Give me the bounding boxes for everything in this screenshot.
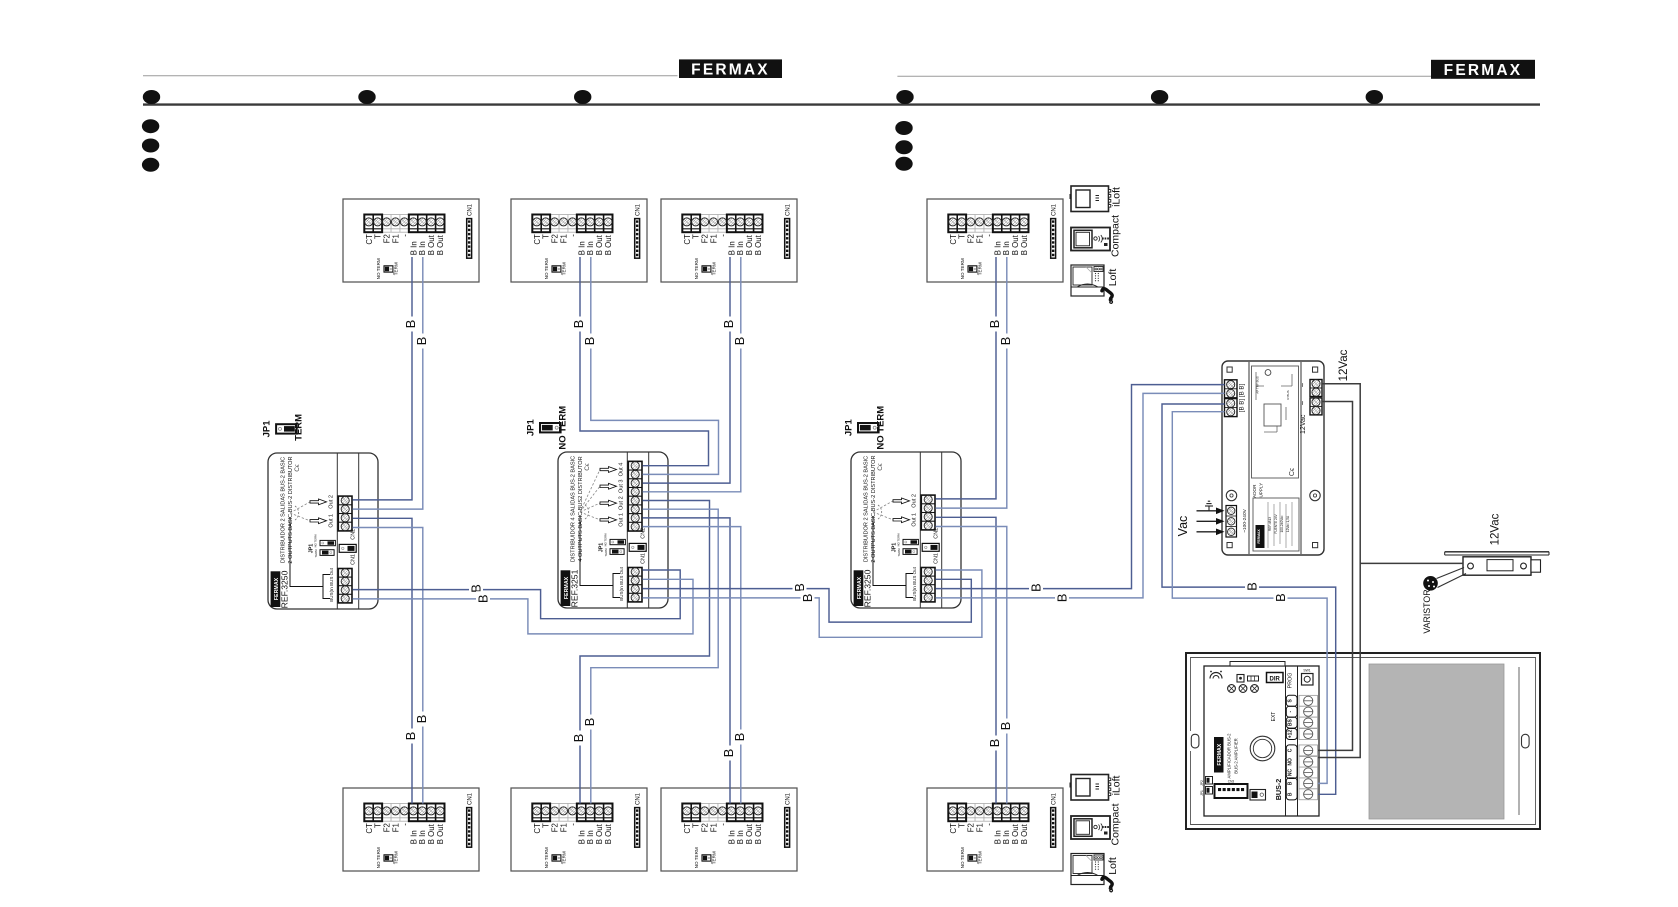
svg-text:B: B xyxy=(1288,781,1294,785)
svg-text:CT: CT xyxy=(683,823,692,834)
svg-text:B Out: B Out xyxy=(595,234,604,255)
svg-text:JP1: JP1 xyxy=(1200,790,1204,796)
svg-text:NO TERM: NO TERM xyxy=(544,258,549,279)
svg-text:BUS(In: BUS(In xyxy=(912,586,917,601)
svg-text:DISTRIBUIDOR 4 SALIDAS BUS-2 B: DISTRIBUIDOR 4 SALIDAS BUS-2 BASIC xyxy=(571,456,577,562)
svg-text:CT: CT xyxy=(949,234,958,245)
svg-text:Out 1: Out 1 xyxy=(328,514,334,528)
svg-text:12Vac: 12Vac xyxy=(1300,414,1307,434)
svg-text:CT: CT xyxy=(949,823,958,834)
svg-text:NO TERM: NO TERM xyxy=(875,406,886,450)
svg-text:CN1: CN1 xyxy=(641,553,647,564)
svg-text:Out 2: Out 2 xyxy=(328,495,334,509)
svg-text:TERM: TERM xyxy=(978,262,983,275)
svg-text:CT: CT xyxy=(683,234,692,245)
svg-text:Vac: Vac xyxy=(1176,516,1190,537)
svg-text:F1: F1 xyxy=(391,234,400,243)
svg-text:B: B xyxy=(403,320,418,329)
svg-text:T: T xyxy=(958,234,967,239)
svg-text:B In: B In xyxy=(993,241,1002,255)
svg-text:R BUS: R BUS xyxy=(1286,390,1290,399)
svg-text:NO TERM: NO TERM xyxy=(960,258,965,279)
svg-text:BUS(In: BUS(In xyxy=(329,587,334,602)
svg-text:B: B xyxy=(987,320,1002,329)
svg-text:BUS-2: BUS-2 xyxy=(1274,779,1283,801)
svg-text:B Out: B Out xyxy=(1011,234,1020,255)
svg-text:B Out: B Out xyxy=(427,823,436,844)
svg-text:Cϵ: Cϵ xyxy=(294,464,301,472)
svg-text:TERM: TERM xyxy=(562,262,567,275)
svg-text:[B B] [B B]: [B B] [B B] xyxy=(1239,383,1246,412)
svg-text:NO TERM: NO TERM xyxy=(544,847,549,868)
svg-text:B In: B In xyxy=(1002,830,1011,844)
svg-text:TERM: TERM xyxy=(394,851,399,864)
svg-text:~: ~ xyxy=(1299,400,1308,405)
svg-text:iLoft: iLoft xyxy=(1111,776,1123,796)
svg-text:NO TERM: NO TERM xyxy=(376,258,381,279)
svg-text:CN1: CN1 xyxy=(635,203,641,216)
svg-text:B: B xyxy=(1288,792,1294,796)
svg-text:T: T xyxy=(958,823,967,828)
svg-text:-: - xyxy=(718,823,727,826)
svg-text:CN1: CN1 xyxy=(1051,203,1057,216)
svg-text:12Vac: 12Vac xyxy=(1490,513,1502,545)
svg-text:B In: B In xyxy=(1002,241,1011,255)
svg-text:Loft: Loft xyxy=(1107,857,1119,875)
svg-text:CN1: CN1 xyxy=(785,203,791,216)
svg-text:TERM: TERM xyxy=(978,851,983,864)
svg-text:JP1: JP1 xyxy=(844,419,855,437)
svg-text:B: B xyxy=(987,739,1002,748)
svg-text:F1: F1 xyxy=(391,823,400,832)
svg-text:B Out: B Out xyxy=(745,823,754,844)
svg-text:CN1: CN1 xyxy=(1051,792,1057,805)
svg-text:B Out: B Out xyxy=(595,823,604,844)
svg-text:B In: B In xyxy=(418,241,427,255)
svg-text:TERM: TERM xyxy=(394,262,399,275)
svg-text:Compact: Compact xyxy=(1110,215,1122,257)
svg-text:B Out: B Out xyxy=(754,234,763,255)
svg-text:TERM: TERM xyxy=(314,549,318,558)
svg-text:F1: F1 xyxy=(709,823,718,832)
svg-text:CN3: CN3 xyxy=(1228,780,1235,784)
svg-text:B Out: B Out xyxy=(436,823,445,844)
svg-text:B: B xyxy=(414,337,429,346)
svg-text:B: B xyxy=(1245,582,1260,591)
svg-text:-: - xyxy=(400,234,409,237)
svg-text:TERM: TERM xyxy=(294,414,305,441)
svg-text:Loft: Loft xyxy=(1107,269,1119,287)
svg-text:F2: F2 xyxy=(701,823,710,832)
svg-text:B In: B In xyxy=(409,830,418,844)
svg-text:NC: NC xyxy=(1288,769,1294,777)
svg-text:T: T xyxy=(374,823,383,828)
svg-text:B Out: B Out xyxy=(427,234,436,255)
svg-text:F1: F1 xyxy=(709,234,718,243)
svg-text:TERM: TERM xyxy=(712,262,717,275)
svg-text:VARISTOR: VARISTOR xyxy=(1422,589,1432,633)
svg-text:Out 1: Out 1 xyxy=(618,513,624,527)
svg-text:Compact: Compact xyxy=(1110,803,1122,845)
svg-text:BUS Out: BUS Out xyxy=(912,566,917,585)
svg-text:B: B xyxy=(800,594,815,603)
svg-text:-: - xyxy=(568,823,577,826)
svg-text:B: B xyxy=(721,320,736,329)
svg-text:DISTRIBUIDOR 2 SALIDAS BUS-2 B: DISTRIBUIDOR 2 SALIDAS BUS-2 BASIC xyxy=(864,456,870,562)
svg-text:B Out: B Out xyxy=(754,823,763,844)
svg-text:FUENTE 24V: FUENTE 24V xyxy=(1274,513,1278,533)
svg-text:F2: F2 xyxy=(551,823,560,832)
svg-text:F1: F1 xyxy=(559,823,568,832)
svg-text:Out 4: Out 4 xyxy=(618,463,624,477)
svg-text:F1: F1 xyxy=(975,823,984,832)
svg-text:B: B xyxy=(721,749,736,758)
svg-text:B In: B In xyxy=(736,830,745,844)
svg-text:JP1: JP1 xyxy=(262,420,273,438)
svg-text:B Out: B Out xyxy=(604,823,613,844)
svg-text:B: B xyxy=(1029,583,1044,592)
svg-text:-: - xyxy=(984,823,993,826)
svg-text:B: B xyxy=(571,734,586,743)
svg-text:B: B xyxy=(998,337,1013,346)
svg-text:AP TRF BUS: AP TRF BUS xyxy=(1256,376,1260,394)
svg-text:B In: B In xyxy=(727,830,736,844)
svg-text:DIR: DIR xyxy=(1270,676,1281,682)
svg-text:CN1: CN1 xyxy=(635,792,641,805)
svg-text:B: B xyxy=(732,337,747,346)
svg-text:FERMAX: FERMAX xyxy=(691,61,770,78)
svg-text:CN1: CN1 xyxy=(467,203,473,216)
svg-text:NO TERM: NO TERM xyxy=(376,847,381,868)
svg-text:F2: F2 xyxy=(383,234,392,243)
svg-text:PROG: PROG xyxy=(1288,673,1294,689)
svg-text:B: B xyxy=(414,715,429,724)
svg-text:AMPLIFICADOR BUS-2: AMPLIFICADOR BUS-2 xyxy=(1227,733,1232,779)
svg-text:EXT: EXT xyxy=(1271,712,1277,722)
svg-text:CN1: CN1 xyxy=(351,554,357,565)
svg-text:T: T xyxy=(542,234,551,239)
svg-text:FERMAX: FERMAX xyxy=(1444,62,1523,79)
svg-text:B Out: B Out xyxy=(604,234,613,255)
svg-text:CN1: CN1 xyxy=(467,792,473,805)
svg-text:4 OUTPUTS BASIC BUS2 DISTRIBUT: 4 OUTPUTS BASIC BUS2 DISTRIBUTOR xyxy=(578,456,584,561)
svg-text:F2: F2 xyxy=(551,234,560,243)
svg-text:F2: F2 xyxy=(967,234,976,243)
svg-text:B Out: B Out xyxy=(1011,823,1020,844)
svg-text:B: B xyxy=(582,718,597,727)
svg-text:B In: B In xyxy=(993,830,1002,844)
svg-text:B: B xyxy=(1273,593,1288,602)
svg-text:B: B xyxy=(998,722,1013,731)
svg-text:B: B xyxy=(571,320,586,329)
svg-text:12Vac: 12Vac xyxy=(1338,349,1350,381)
svg-text:F1: F1 xyxy=(559,234,568,243)
svg-text:BUS-2 AMPLIFIER: BUS-2 AMPLIFIER xyxy=(1234,738,1239,773)
svg-text:TERM: TERM xyxy=(712,851,717,864)
svg-text:T: T xyxy=(692,823,701,828)
svg-text:CN2: CN2 xyxy=(641,528,647,539)
svg-text:Out 2: Out 2 xyxy=(618,496,624,510)
svg-text:-: - xyxy=(568,234,577,237)
svg-text:Out 2: Out 2 xyxy=(911,494,917,508)
svg-text:+12: +12 xyxy=(1288,730,1294,739)
svg-text:TERM: TERM xyxy=(604,548,608,557)
svg-text:B In: B In xyxy=(586,830,595,844)
svg-text:F2: F2 xyxy=(967,823,976,832)
svg-text:NO TERM: NO TERM xyxy=(960,847,965,868)
svg-text:BUS(In: BUS(In xyxy=(619,586,624,601)
svg-text:CT: CT xyxy=(533,234,542,245)
svg-text:FERMAX: FERMAX xyxy=(1257,529,1261,544)
svg-text:-: - xyxy=(400,823,409,826)
svg-text:NO TERM: NO TERM xyxy=(694,258,699,279)
svg-text:SW1: SW1 xyxy=(1303,669,1310,673)
svg-text:BS: BS xyxy=(1288,718,1294,726)
svg-text:B In: B In xyxy=(409,241,418,255)
svg-text:iLoft: iLoft xyxy=(1111,187,1123,207)
svg-text:Cϵ: Cϵ xyxy=(877,463,884,471)
svg-text:REF.3250: REF.3250 xyxy=(863,569,873,607)
svg-text:-: - xyxy=(984,234,993,237)
svg-text:F2: F2 xyxy=(701,234,710,243)
svg-text:Out 1: Out 1 xyxy=(911,513,917,527)
svg-text:B: B xyxy=(476,594,491,603)
svg-text:CN2: CN2 xyxy=(934,528,940,539)
svg-text:~100-240V: ~100-240V xyxy=(1242,508,1248,532)
svg-text:Cϵ: Cϵ xyxy=(1289,468,1296,476)
svg-text:B: B xyxy=(1055,594,1070,603)
svg-text:B: B xyxy=(732,733,747,742)
svg-text:T: T xyxy=(374,234,383,239)
svg-text:B In: B In xyxy=(577,830,586,844)
svg-text:JP1: JP1 xyxy=(526,419,537,437)
svg-text:BUS Out: BUS Out xyxy=(619,566,624,585)
svg-text:B In: B In xyxy=(727,241,736,255)
svg-text:100-240Vac: 100-240Vac xyxy=(1280,515,1284,532)
svg-text:B In: B In xyxy=(736,241,745,255)
svg-text:Out 3: Out 3 xyxy=(618,479,624,493)
svg-text:B: B xyxy=(582,337,597,346)
svg-text:CT: CT xyxy=(533,823,542,834)
svg-text:12Vac 1,5A: 12Vac 1,5A xyxy=(1286,515,1290,532)
svg-text:CT: CT xyxy=(365,234,374,245)
svg-text:Cϵ: Cϵ xyxy=(584,463,591,471)
svg-text:REF.3251: REF.3251 xyxy=(570,569,580,607)
svg-text:~: ~ xyxy=(1299,382,1308,387)
svg-text:T: T xyxy=(542,823,551,828)
svg-text:B Out: B Out xyxy=(1020,823,1029,844)
svg-text:FERMAX: FERMAX xyxy=(1217,743,1223,765)
svg-text:F2: F2 xyxy=(383,823,392,832)
svg-text:F1: F1 xyxy=(975,234,984,243)
svg-text:B In: B In xyxy=(418,830,427,844)
svg-text:B Out: B Out xyxy=(436,234,445,255)
svg-text:-: - xyxy=(718,234,727,237)
svg-text:NO TERM: NO TERM xyxy=(557,406,568,450)
svg-text:B In: B In xyxy=(586,241,595,255)
svg-text:DISTRIBUIDOR 2 SALIDAS BUS-2 B: DISTRIBUIDOR 2 SALIDAS BUS-2 BASIC xyxy=(281,457,287,563)
svg-text:B Out: B Out xyxy=(1020,234,1029,255)
svg-text:REF.4813: REF.4813 xyxy=(1268,517,1272,531)
svg-text:TERM: TERM xyxy=(562,851,567,864)
svg-text:TERM: TERM xyxy=(897,548,901,557)
svg-text:B Out: B Out xyxy=(745,234,754,255)
svg-text:NO TERM: NO TERM xyxy=(694,847,699,868)
svg-text:JP2: JP2 xyxy=(1200,780,1204,786)
svg-text:NO: NO xyxy=(1288,758,1294,766)
svg-text:T: T xyxy=(692,234,701,239)
svg-text:CN1: CN1 xyxy=(934,553,940,564)
svg-text:C: C xyxy=(1288,748,1294,752)
svg-text:REF.3250: REF.3250 xyxy=(280,570,290,608)
svg-text:CN2: CN2 xyxy=(351,529,357,540)
svg-text:CN1: CN1 xyxy=(785,792,791,805)
svg-text:B In: B In xyxy=(577,241,586,255)
svg-text:B: B xyxy=(403,732,418,741)
svg-text:BUS Out: BUS Out xyxy=(329,567,334,586)
svg-text:CT: CT xyxy=(365,823,374,834)
